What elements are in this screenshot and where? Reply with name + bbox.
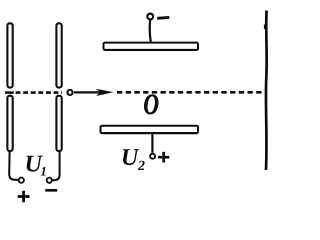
svg-text:2: 2 bbox=[137, 159, 145, 174]
svg-text:1: 1 bbox=[40, 163, 47, 178]
svg-text:O: O bbox=[143, 88, 159, 121]
